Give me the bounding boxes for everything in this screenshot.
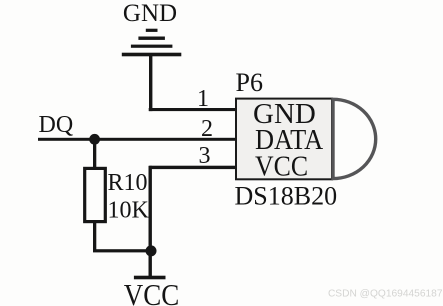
svg-text:VCC: VCC <box>124 278 179 306</box>
junction dot on DQ net <box>89 134 100 145</box>
wire: junction down to resistor top <box>93 139 96 168</box>
svg-text:3: 3 <box>199 143 211 169</box>
wire: pin 1 horizontal <box>149 108 236 111</box>
wire: ground stem down to pin 1 <box>149 56 152 111</box>
svg-text:VCC: VCC <box>255 150 308 182</box>
junction dot on VCC net <box>146 245 157 256</box>
resistor R10 <box>85 168 106 221</box>
wire: horizontal to VCC junction <box>93 249 152 252</box>
ground symbol (top) <box>122 29 182 57</box>
svg-text:GND: GND <box>123 0 177 27</box>
wire: DQ to pin 2 <box>38 138 235 141</box>
wire: pin 3 horizontal <box>149 166 235 169</box>
svg-text:CSDN @QQ1694456187: CSDN @QQ1694456187 <box>328 288 443 299</box>
wire: resistor bottom down <box>93 223 96 252</box>
sensor P6 body (rectangle) <box>236 99 332 180</box>
svg-text:DS18B20: DS18B20 <box>235 182 338 211</box>
svg-text:2: 2 <box>201 116 213 142</box>
svg-text:P6: P6 <box>236 68 263 97</box>
svg-text:R10: R10 <box>108 170 148 196</box>
wire: VCC vertical <box>149 166 152 277</box>
sensor probe arc (D shape) <box>333 99 376 178</box>
svg-text:10K: 10K <box>108 198 150 224</box>
svg-text:1: 1 <box>197 86 209 112</box>
power symbol VCC (bar) <box>134 276 166 280</box>
svg-text:DQ: DQ <box>39 112 74 138</box>
